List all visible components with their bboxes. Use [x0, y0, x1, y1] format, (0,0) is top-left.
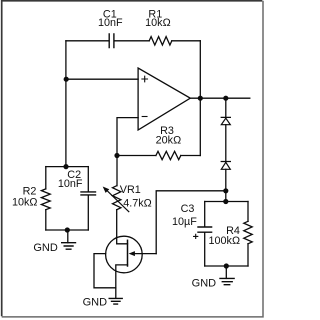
wire VR1 to drain — [117, 210, 128, 244]
diode D1 — [221, 117, 230, 124]
wire R1 to feedback corner — [172, 40, 201, 42]
svg-text:4.7kΩ: 4.7kΩ — [123, 197, 151, 209]
potentiometer VR1 arrowhead — [103, 187, 110, 193]
op-amp minus input mark — [142, 116, 147, 118]
wire C3R4 top rail — [205, 201, 248, 203]
svg-text:GND: GND — [192, 278, 217, 290]
svg-text:GND: GND — [33, 242, 58, 254]
svg-text:20kΩ: 20kΩ — [156, 135, 181, 147]
capacitor C3 plus mark — [194, 234, 198, 238]
wire VR1 top — [116, 156, 118, 186]
transistor Q1 channel — [127, 240, 129, 266]
wire R2 branch bottom — [45, 210, 47, 230]
wire diode D2 to node B — [225, 169, 227, 201]
wire plus input — [66, 78, 138, 80]
potentiometer VR1 arrow shaft — [105, 189, 129, 212]
svg-text:10kΩ: 10kΩ — [12, 196, 37, 208]
node dot output diode — [223, 96, 228, 101]
potentiometer VR1 — [113, 186, 121, 210]
wire GND C stub — [225, 266, 227, 278]
op-amp plus input mark — [142, 76, 148, 82]
resistor R2 — [41, 189, 50, 210]
wire C3R4 bottom rail — [205, 265, 248, 267]
wire GND A stub — [67, 230, 69, 243]
wire gate loop — [156, 191, 226, 254]
wire R2 branch top — [45, 167, 47, 189]
wire C2 branch bottom — [87, 196, 89, 231]
capacitor C1 — [109, 34, 114, 48]
svg-text:GND: GND — [83, 297, 108, 309]
wire C2 branch top — [87, 167, 89, 192]
wire top left from node A to C1 — [66, 40, 109, 42]
capacitor C2 — [81, 192, 96, 195]
svg-text:10µF: 10µF — [172, 216, 197, 228]
svg-text:100kΩ: 100kΩ — [209, 235, 240, 247]
node dot gate junction — [223, 188, 228, 193]
ground GND B — [109, 298, 122, 304]
node dot minus input R3 — [114, 153, 119, 158]
svg-text:10kΩ: 10kΩ — [145, 17, 170, 29]
wire diode D1 to D2 — [225, 125, 227, 162]
wire R3 left — [117, 155, 156, 157]
wire minus input — [117, 118, 138, 156]
wire feedback vertical — [199, 41, 201, 156]
wire diode string top — [225, 98, 227, 117]
node dot R2C2 top — [63, 164, 68, 169]
svg-text:VR1: VR1 — [120, 184, 141, 196]
wire R2C2 bottom rail — [46, 229, 89, 231]
svg-text:C3: C3 — [181, 203, 195, 215]
node dot C3R4 bottom — [224, 263, 229, 268]
node dot R2C2 bottom — [65, 227, 70, 232]
wire R4 branch bottom — [247, 244, 249, 266]
resistor R1 — [149, 37, 172, 45]
wire C3 branch bottom — [204, 233, 206, 266]
wire case to source loop — [94, 254, 116, 288]
wire output row — [190, 97, 250, 99]
wire C3 branch top — [204, 202, 206, 227]
transistor Q1 gate wire — [134, 253, 157, 255]
resistor R3 — [156, 151, 181, 159]
wire C1 to R1 — [114, 40, 149, 42]
wire R4 branch top — [247, 202, 249, 222]
node dot C3R4 top — [223, 199, 228, 204]
node dot output feedback — [198, 96, 203, 101]
svg-text:10nF: 10nF — [98, 17, 123, 29]
capacitor C3 — [198, 227, 212, 232]
diode D2 — [221, 162, 230, 170]
transistor Q1 gate arrowhead — [129, 251, 135, 256]
wire R3 right — [181, 155, 201, 157]
op-amp U1 — [138, 68, 190, 130]
wire left vertical — [65, 41, 67, 167]
transistor Q1 source — [116, 265, 128, 298]
node dot plus input — [64, 77, 69, 82]
transistor Q1 body — [106, 236, 143, 273]
wire R2C2 top rail — [46, 166, 89, 168]
svg-text:10nF: 10nF — [58, 178, 83, 190]
resistor R4 — [244, 221, 252, 244]
ground GND C — [220, 278, 234, 284]
ground GND A — [62, 243, 76, 250]
